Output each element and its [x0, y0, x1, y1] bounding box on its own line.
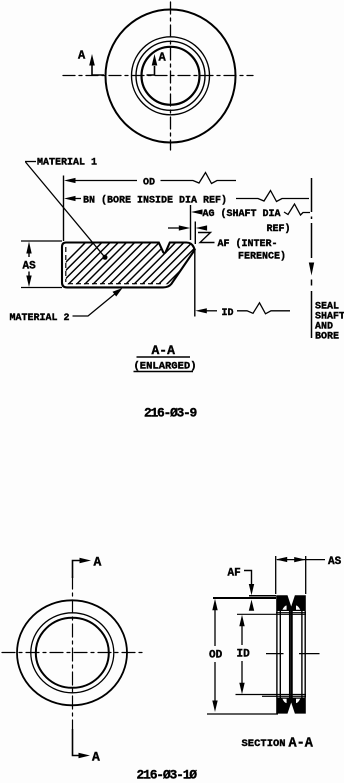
lip tip extension line (upper): [194, 222, 196, 245]
title SECTION A-A: [242, 737, 314, 752]
inner circle thin: [31, 613, 114, 693]
svg-text:A: A: [92, 750, 100, 765]
svg-text:216-Ø3-9: 216-Ø3-9: [144, 406, 198, 421]
svg-text:OD: OD: [209, 650, 223, 662]
dimension OD: [209, 599, 223, 712]
svg-text:MATERIAL 2: MATERIAL 2: [10, 313, 70, 324]
dimension AS: [276, 556, 342, 568]
section top black profile (M shape): [276, 595, 306, 611]
Z jog leader to AF text: [198, 233, 215, 243]
OD bottom extension line: [207, 713, 278, 715]
left extension line (bore edge): [63, 176, 65, 242]
svg-text:OD: OD: [143, 178, 155, 189]
lip tip extension line (lower, to ID): [194, 251, 196, 317]
svg-text:AF: AF: [228, 568, 241, 580]
svg-text:BORE: BORE: [315, 332, 339, 343]
svg-text:FERENCE): FERENCE): [238, 251, 286, 263]
material 2 liner interface (dashed) left: [65, 247, 67, 282]
dimension AG (shaft dia ref): [191, 204, 310, 235]
dimension ID: [237, 615, 251, 695]
ID bottom extension line: [236, 694, 307, 696]
outer circle: [17, 600, 127, 705]
svg-text:A: A: [94, 555, 102, 570]
svg-text:BN (BORE INSIDE DIA REF): BN (BORE INSIDE DIA REF): [83, 195, 227, 207]
label SEAL SHAFT AND BORE: [315, 302, 344, 343]
inner circle 3 (shaft lip, thick): [142, 47, 200, 105]
svg-text:A-A: A-A: [289, 737, 314, 752]
AS extension lines: [276, 556, 306, 594]
svg-text:A: A: [159, 51, 167, 65]
seal section outline: [62, 243, 195, 288]
shaft reference extension line: [190, 205, 192, 240]
seal shaft and bore centerline (vertical dash-dot): [311, 178, 313, 338]
section horizontal centerline stubs: [266, 653, 320, 655]
section top inner edge: [276, 612, 306, 614]
svg-text:A-A: A-A: [152, 343, 176, 358]
lip tip reference line: [249, 595, 276, 597]
section bottom inner edge: [262, 695, 306, 697]
svg-text:A: A: [78, 49, 86, 63]
svg-text:ID: ID: [237, 649, 251, 661]
title A-A (ENLARGED): [134, 343, 197, 373]
ID top extension line: [237, 613, 306, 615]
dimension OD: [64, 173, 236, 189]
small arrow blob on centerline: [309, 263, 314, 276]
svg-text:AS: AS: [328, 556, 342, 568]
label MATERIAL 1 with leader and dot: [25, 158, 108, 260]
svg-text:AF (INTER-: AF (INTER-: [218, 238, 278, 250]
dimension AS (enlarged section height): [21, 241, 62, 288]
white lip detail bottom right: [296, 699, 300, 703]
svg-text:MATERIAL 1: MATERIAL 1: [37, 158, 97, 169]
white lip detail top left: [282, 606, 286, 610]
horizontal centerline: [2, 652, 144, 654]
horizontal centerline: [63, 75, 253, 77]
dimension BN (bore inside dia ref): [64, 191, 309, 207]
inner circle 1 (bore lip): [132, 37, 210, 115]
inner circle thick: [36, 618, 109, 688]
svg-text:216-Ø3-1Ø: 216-Ø3-1Ø: [137, 768, 198, 783]
section arrow A (bottom): [73, 729, 101, 765]
svg-text:AS: AS: [23, 261, 37, 273]
svg-text:ID: ID: [222, 308, 234, 319]
svg-text:REF): REF): [267, 223, 291, 235]
label MATERIAL 2 with leader arrow: [10, 288, 123, 324]
outer circle (seal OD): [106, 10, 236, 143]
inner circle 2: [136, 41, 205, 110]
white lip detail bottom left: [282, 699, 286, 703]
dimension ID: [195, 303, 290, 319]
dimension AF (interference) arrows: [168, 225, 286, 262]
dimension AF with elbow: [228, 568, 255, 611]
section arrow A (top): [73, 555, 102, 579]
svg-text:(ENLARGED): (ENLARGED): [134, 361, 197, 373]
vertical centerline: [72, 576, 74, 729]
hatching material 1: [36, 235, 282, 292]
material 2 liner interface (dashed) bottom: [68, 283, 163, 285]
shaft surface reference line: [213, 597, 276, 599]
svg-text:SECTION: SECTION: [242, 738, 286, 750]
svg-text:AG (SHAFT DIA: AG (SHAFT DIA: [203, 208, 281, 220]
white lip detail top right: [296, 606, 300, 610]
section bottom black profile (W shape): [276, 698, 306, 714]
section arrow A (left outer): [78, 49, 104, 76]
section inner rails: [277, 611, 305, 698]
section arrow A (inner): [147, 51, 167, 76]
vertical centerline: [170, 2, 172, 150]
